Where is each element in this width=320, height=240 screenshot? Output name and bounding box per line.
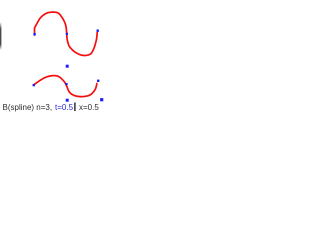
point B3 (right end of curve B) xyxy=(97,80,99,82)
point P2 (isolated lower point) xyxy=(66,99,69,102)
point P1 (isolated middle point) xyxy=(66,65,69,68)
point A2 (on curve A steep segment) xyxy=(66,33,68,35)
point P3 (lower right point) xyxy=(100,98,103,101)
svg-text:t=0.5: t=0.5 xyxy=(55,103,74,112)
background xyxy=(0,0,160,120)
svg-text:B(spline) n=3,: B(spline) n=3, xyxy=(3,103,53,112)
point B1 (left end of curve B) xyxy=(33,84,35,86)
curve B (bottom red wave) xyxy=(34,76,97,97)
svg-text:x=0.5: x=0.5 xyxy=(79,103,99,112)
cursor bar in caption xyxy=(74,103,75,112)
point B2 (on curve B steep segment) xyxy=(65,83,67,85)
point A3 (right end of curve A) xyxy=(97,30,99,32)
curve A (top red wave) xyxy=(35,12,98,55)
left edge axis remnant xyxy=(0,0,1,1)
point A1 (left end of curve A) xyxy=(33,33,35,36)
